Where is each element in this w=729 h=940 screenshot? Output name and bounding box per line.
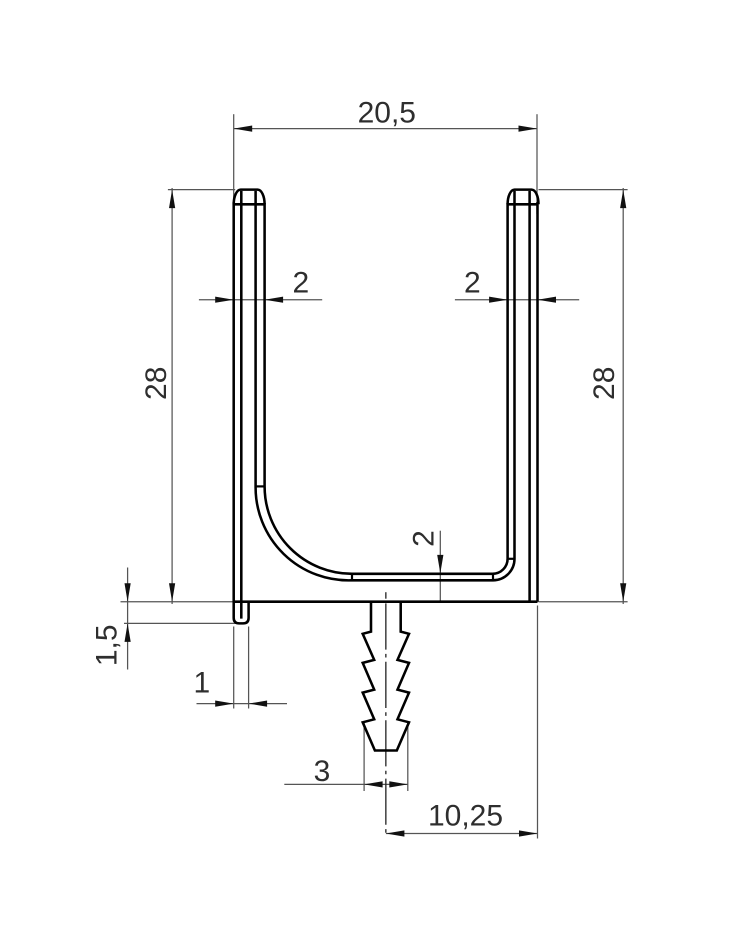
svg-text:2: 2	[292, 267, 309, 300]
dim 28 right: bottom arrowhead	[620, 583, 626, 602]
right wall top cap	[508, 190, 539, 205]
dim 28 left: top extension line	[168, 189, 235, 191]
dim 2 right wall: right arrowhead	[538, 297, 557, 303]
dim 10,25: right arrowhead (inside, pointing right)	[519, 830, 538, 836]
liner interface: cavity bottom line	[352, 579, 493, 582]
dim 3: right extension line	[407, 722, 409, 792]
dim 3: right arrowhead (inside, pointing right)	[389, 781, 408, 787]
dim 28 right: top extension line	[539, 189, 628, 191]
dim 20,5: left extension line	[233, 114, 235, 214]
dim 1: left extension line	[233, 627, 235, 709]
left wall cap tangent line	[234, 203, 265, 206]
left wall top cap	[234, 190, 265, 205]
svg-text:2: 2	[464, 267, 481, 300]
svg-text:28: 28	[588, 367, 621, 400]
right wall cap tangent line	[508, 203, 538, 206]
dim 2 bottom: leader line	[439, 531, 441, 602]
dim 2 right wall: dimension line	[455, 299, 579, 301]
dim 1,5: bottom extension line	[124, 622, 246, 624]
profile bottom edge	[234, 600, 538, 603]
svg-text:20,5: 20,5	[358, 97, 416, 130]
dim 2 left wall: left arrowhead	[215, 297, 234, 303]
dim 20,5: left arrowhead	[234, 126, 253, 132]
dim 1: dimension line	[197, 703, 288, 705]
dim 20,5: right arrowhead	[519, 126, 538, 132]
left wall outer edge and lip outline	[234, 202, 249, 623]
dim 1: right arrowhead	[249, 701, 268, 707]
svg-text:1: 1	[193, 666, 210, 699]
dim 1,5: upper arrowhead (pointing down)	[125, 583, 131, 602]
dim 28 left: bottom arrowhead	[169, 583, 175, 602]
dim 2 bottom: arrowhead (pointing down)	[437, 555, 443, 574]
dim 10,25: right extension line	[537, 606, 539, 839]
dim 2 left wall: dimension line	[199, 299, 322, 301]
dim 2 right wall: left arrowhead	[489, 297, 508, 303]
dim 28 left: bottom extension line	[121, 601, 234, 603]
dim 1,5: dimension line	[127, 568, 129, 670]
dim 10,25: left arrowhead (inside, pointing left)	[386, 830, 405, 836]
leg centerline (dash-dot)	[385, 603, 387, 837]
right wall outer tangent edge	[528, 191, 531, 602]
dim 10,25: dimension line	[386, 833, 538, 835]
dim 28 right: top arrowhead	[620, 190, 626, 209]
svg-text:28: 28	[140, 367, 173, 400]
dim 1: left arrowhead	[215, 701, 234, 707]
dim 1,5: lower arrowhead (pointing up)	[125, 623, 131, 642]
dim 1: right extension line	[248, 627, 250, 709]
liner tick at left fillet end	[351, 574, 353, 581]
liner tick at right fillet end	[492, 574, 494, 581]
right wall outer edge	[536, 202, 539, 602]
liner interface: left wall edge, big fillet offset arc	[256, 191, 352, 580]
left wall outer tangent edge	[240, 191, 243, 619]
barbed leg outline	[363, 602, 409, 751]
inner cavity surface: left wall, big fillet R6, bottom face, small fillet R1, right wall	[265, 203, 508, 574]
liner interface: small right fillet offset arc and right wall edge	[493, 191, 515, 580]
svg-text:10,25: 10,25	[428, 799, 503, 832]
dim 3: left arrowhead (inside, pointing left)	[364, 781, 383, 787]
dim 20,5: right extension line	[536, 114, 538, 214]
dim 2 left wall: right arrowhead	[265, 297, 284, 303]
svg-text:3: 3	[314, 755, 331, 788]
svg-text:1,5: 1,5	[91, 624, 124, 666]
dim 28 left: dimension line	[171, 188, 173, 604]
dim 3: dimension line	[284, 783, 408, 785]
svg-text:2: 2	[408, 530, 441, 547]
dim 28 right: dimension line	[622, 188, 624, 604]
dim 28 right: bottom extension line	[539, 601, 628, 603]
dim 3: left extension line	[363, 722, 365, 792]
liner tick at left fillet start	[256, 485, 265, 487]
leg centerline: short starting dash	[385, 592, 387, 599]
liner tick at right fillet start	[508, 558, 515, 560]
dim 28 left: top arrowhead	[169, 190, 175, 209]
dim 20,5: dimension line	[234, 128, 537, 130]
